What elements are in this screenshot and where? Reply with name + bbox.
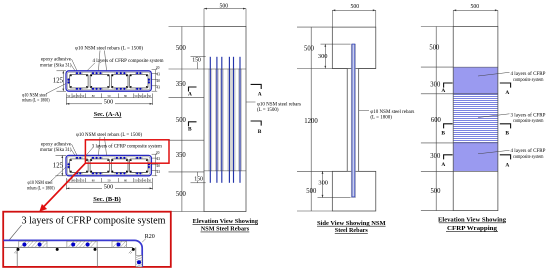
svg-text:43: 43 <box>156 73 160 77</box>
svg-text:A: A <box>505 90 509 96</box>
tick row B-B <box>66 178 152 183</box>
svg-text:50: 50 <box>81 179 85 183</box>
chain labels col2 <box>176 45 187 198</box>
top block side view <box>332 27 376 68</box>
svg-text:80: 80 <box>92 94 96 98</box>
svg-text:50: 50 <box>139 179 143 183</box>
svg-text:4 layers of CFRP: 4 layers of CFRP <box>511 149 546 154</box>
svg-text:R20: R20 <box>145 234 155 240</box>
leader wire to top rebars A-A <box>99 51 107 71</box>
epoxy groove detail side <box>136 255 142 267</box>
svg-text:125: 125 <box>53 77 64 84</box>
svg-text:3 layers of CFRP: 3 layers of CFRP <box>511 113 546 118</box>
svg-text:3 layers of CFRP composite sys: 3 layers of CFRP composite system <box>92 142 162 149</box>
tick row numbers A-A <box>67 94 151 98</box>
svg-text:500: 500 <box>431 188 442 195</box>
svg-text:50: 50 <box>77 179 81 183</box>
svg-text:φ10 NSM steel rebars (L = 1500: φ10 NSM steel rebars (L = 1500) <box>76 131 142 138</box>
svg-text:40: 40 <box>72 94 76 98</box>
leader + label phi10 col3 <box>359 110 369 112</box>
svg-text:NSM Steel Rebars: NSM Steel Rebars <box>201 226 250 233</box>
svg-text:300: 300 <box>318 180 328 187</box>
svg-text:500: 500 <box>104 184 113 191</box>
leader wire epoxy B-B <box>72 144 78 155</box>
svg-text:50: 50 <box>139 94 143 98</box>
svg-text:500: 500 <box>220 3 229 10</box>
svg-text:50: 50 <box>108 94 112 98</box>
concrete surface line top <box>3 246 133 248</box>
leader wire CFRP A-A <box>87 63 95 71</box>
svg-text:40: 40 <box>72 179 76 183</box>
svg-text:50: 50 <box>148 179 152 183</box>
leader wire 3 layers B-B <box>86 148 93 155</box>
svg-text:50: 50 <box>135 179 139 183</box>
CFRP solid band top (4 layers) <box>454 67 498 94</box>
dimension 125 B-B <box>56 155 67 175</box>
svg-text:B: B <box>505 131 509 137</box>
svg-text:500: 500 <box>104 99 113 106</box>
svg-text:80: 80 <box>124 179 128 183</box>
leader wire side rebars B-B <box>51 167 66 181</box>
svg-text:(L = 1800): (L = 1800) <box>370 113 392 120</box>
section marker B left col2 <box>189 122 197 127</box>
top dimension 500 col4 <box>453 10 498 26</box>
svg-text:(L = 1500): (L = 1500) <box>257 106 279 113</box>
epoxy groove detail 3 <box>112 241 127 247</box>
svg-text:Sec. (B-B): Sec. (B-B) <box>93 196 121 203</box>
svg-text:500: 500 <box>471 3 480 10</box>
svg-text:50: 50 <box>81 94 85 98</box>
dimension 150 top col2 <box>191 57 206 69</box>
svg-text:B: B <box>441 130 445 136</box>
left extension lines col3 <box>297 27 376 211</box>
svg-text:rebars (L = 1800): rebars (L = 1800) <box>27 184 55 191</box>
svg-text:40: 40 <box>143 179 147 183</box>
NSM rebar lines elevation <box>210 57 240 183</box>
leader + label 3 layers col4 <box>478 114 510 118</box>
svg-text:Side View Showing NSM: Side View Showing NSM <box>317 220 386 227</box>
groove edge lines col2 <box>204 68 246 70</box>
beam section A-A <box>66 71 151 91</box>
beam section B-B <box>66 155 151 175</box>
concrete surface line side <box>135 247 137 255</box>
svg-text:80: 80 <box>92 179 96 183</box>
slab outline elevation NSM <box>204 27 246 212</box>
leader + label 4 layers bottom col4 <box>478 150 510 154</box>
svg-text:A: A <box>258 91 262 97</box>
svg-text:350: 350 <box>176 152 187 159</box>
svg-text:50: 50 <box>148 94 152 98</box>
svg-text:500: 500 <box>429 44 440 51</box>
svg-text:50: 50 <box>77 94 81 98</box>
bottom block side view <box>332 171 376 211</box>
svg-text:mortar (Sika 31): mortar (Sika 31) <box>40 62 72 69</box>
left extension lines col4 <box>421 27 453 211</box>
svg-text:500: 500 <box>176 191 187 198</box>
svg-text:Sec. (A-A): Sec. (A-A) <box>94 111 122 118</box>
section marker B left col4 <box>444 124 453 129</box>
leader wire big label <box>9 225 21 240</box>
tick row numbers B-B <box>67 179 151 183</box>
right mini dimension chain B-B <box>152 154 158 176</box>
leader + label phi10 col2 right <box>246 101 256 103</box>
CFRP layer line (blue) with R20 corner <box>3 240 142 267</box>
tiny arrow marks detail <box>14 250 17 253</box>
svg-text:Elevation View Showing: Elevation View Showing <box>438 216 507 223</box>
band boundary lines col4 <box>453 67 498 171</box>
svg-text:43: 43 <box>156 170 160 174</box>
red highlight rectangle on B-B <box>85 140 169 163</box>
chain labels col4 <box>429 44 441 195</box>
red zoom arrow <box>43 163 85 207</box>
svg-text:40: 40 <box>156 164 160 168</box>
section marker A left col2 <box>189 87 197 92</box>
longitudinal bar dots detail <box>17 248 20 251</box>
svg-text:4 layers of CFRP composite sys: 4 layers of CFRP composite system <box>93 57 164 64</box>
dimension 300 bottom col3 <box>318 171 351 197</box>
svg-text:300: 300 <box>430 81 441 88</box>
epoxy groove detail 2 <box>67 241 97 247</box>
red detail box <box>3 212 171 267</box>
svg-text:A: A <box>188 92 192 98</box>
leader wire R20 <box>142 239 146 243</box>
dimension 500 B-B <box>66 183 152 190</box>
right mini dimension chain A-A <box>152 70 158 92</box>
svg-text:300: 300 <box>318 53 328 60</box>
svg-text:4 layers of CFRP: 4 layers of CFRP <box>511 72 546 77</box>
svg-text:50: 50 <box>108 179 112 183</box>
svg-text:φ10 NSM steel rebars (L = 1500: φ10 NSM steel rebars (L = 1500) <box>75 44 143 51</box>
svg-text:500: 500 <box>351 3 360 10</box>
svg-text:Elevation View Showing: Elevation View Showing <box>193 218 259 225</box>
stirrup lines detail <box>16 247 18 267</box>
svg-text:20: 20 <box>156 151 160 155</box>
svg-text:composite system: composite system <box>513 155 544 160</box>
svg-text:A: A <box>505 163 509 169</box>
groove lines side view <box>351 44 355 197</box>
svg-text:1200: 1200 <box>304 118 318 125</box>
slab outline elevation CFRP <box>453 27 498 211</box>
svg-text:3 layers of CFRP composite sys: 3 layers of CFRP composite system <box>22 216 167 227</box>
CFRP striped band (3 layers) <box>454 94 498 143</box>
svg-text:20: 20 <box>156 66 160 70</box>
top dimension 500 col3 <box>332 10 376 27</box>
svg-text:B: B <box>258 129 262 135</box>
svg-text:150: 150 <box>192 58 201 64</box>
svg-text:40: 40 <box>143 94 147 98</box>
svg-text:A: A <box>441 162 445 168</box>
NSM rebar grooves elevation <box>209 69 242 171</box>
svg-text:125: 125 <box>53 162 64 169</box>
svg-text:350: 350 <box>176 81 187 88</box>
svg-text:50: 50 <box>67 94 71 98</box>
section marker A1 left col4 <box>444 83 453 88</box>
svg-text:composite system: composite system <box>513 78 544 83</box>
svg-text:A: A <box>441 88 445 94</box>
leader wire to top rebars B-B <box>99 137 107 155</box>
svg-text:80: 80 <box>124 94 128 98</box>
svg-text:500: 500 <box>304 46 315 53</box>
svg-text:500: 500 <box>306 188 317 195</box>
tick row A-A <box>66 93 152 98</box>
section marker B right col2 <box>251 121 262 126</box>
dimension 125 A-A <box>57 71 67 91</box>
svg-text:mortar (Sika 31): mortar (Sika 31) <box>40 146 72 153</box>
chain labels col3 <box>304 46 318 196</box>
section marker A right col2 <box>251 84 262 89</box>
svg-text:rebars (L = 1800): rebars (L = 1800) <box>22 97 50 104</box>
svg-text:CFRP Wrapping: CFRP Wrapping <box>447 225 498 232</box>
svg-text:composite system: composite system <box>513 119 544 124</box>
leader wire epoxy A-A <box>72 59 78 71</box>
svg-text:B: B <box>188 126 192 132</box>
dimension 300 top col3 <box>321 44 351 68</box>
section marker B right col4 <box>500 124 511 129</box>
section marker A1 right col4 <box>500 83 511 88</box>
svg-text:500: 500 <box>176 117 187 124</box>
leader wire side rebars A-A <box>46 84 66 94</box>
svg-text:500: 500 <box>176 45 187 52</box>
svg-text:300: 300 <box>430 153 441 160</box>
dimension 150 bottom col2 <box>191 172 206 183</box>
svg-text:40: 40 <box>156 79 160 83</box>
svg-text:600: 600 <box>431 117 442 124</box>
CFRP solid band bottom (4 layers) <box>454 143 498 171</box>
svg-text:43: 43 <box>156 85 160 89</box>
web lines side view <box>346 69 348 172</box>
svg-text:epoxy adhesive: epoxy adhesive <box>41 56 72 62</box>
top dimension 500 col2 <box>204 9 246 27</box>
section marker A2 left col4 <box>444 155 453 160</box>
svg-text:Steel Rebars: Steel Rebars <box>335 227 368 234</box>
dimension 500 A-A <box>66 98 152 105</box>
svg-text:50: 50 <box>135 94 139 98</box>
svg-text:150: 150 <box>194 176 203 182</box>
svg-text:43: 43 <box>156 157 160 161</box>
leader + label 4 layers top col4 <box>478 72 510 76</box>
NSM rebar side view <box>352 44 355 197</box>
epoxy groove detail 1 <box>19 241 47 247</box>
left extension lines col2 <box>169 27 205 212</box>
section marker A2 right col4 <box>500 155 511 160</box>
